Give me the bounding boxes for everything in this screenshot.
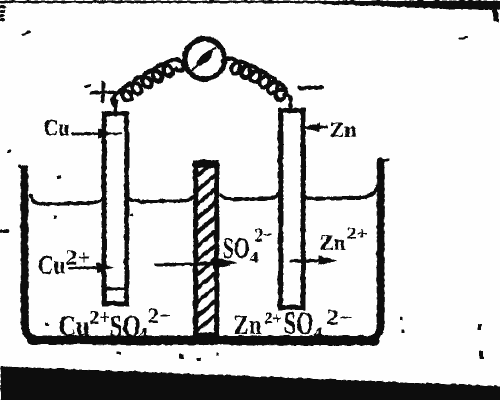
svg-text:Cu: Cu <box>37 250 65 279</box>
svg-text:SO: SO <box>283 304 313 340</box>
svg-text:4: 4 <box>249 249 258 266</box>
svg-text:2+: 2+ <box>346 223 367 242</box>
svg-text:2−: 2− <box>254 224 272 246</box>
svg-text:2+: 2+ <box>65 244 90 269</box>
svg-text:2+: 2+ <box>264 308 281 327</box>
svg-text:Zn: Zn <box>329 117 356 141</box>
svg-text:Zn: Zn <box>319 230 345 254</box>
svg-text:Zn: Zn <box>233 309 261 339</box>
svg-text:Cu: Cu <box>58 309 89 342</box>
svg-text:Cu: Cu <box>43 115 69 141</box>
svg-text:SO: SO <box>222 231 249 264</box>
svg-text:4: 4 <box>313 324 322 341</box>
svg-text:SO: SO <box>109 307 140 343</box>
svg-text:2+: 2+ <box>89 306 109 328</box>
svg-text:2−: 2− <box>326 304 352 329</box>
svg-text:2−: 2− <box>147 302 171 327</box>
